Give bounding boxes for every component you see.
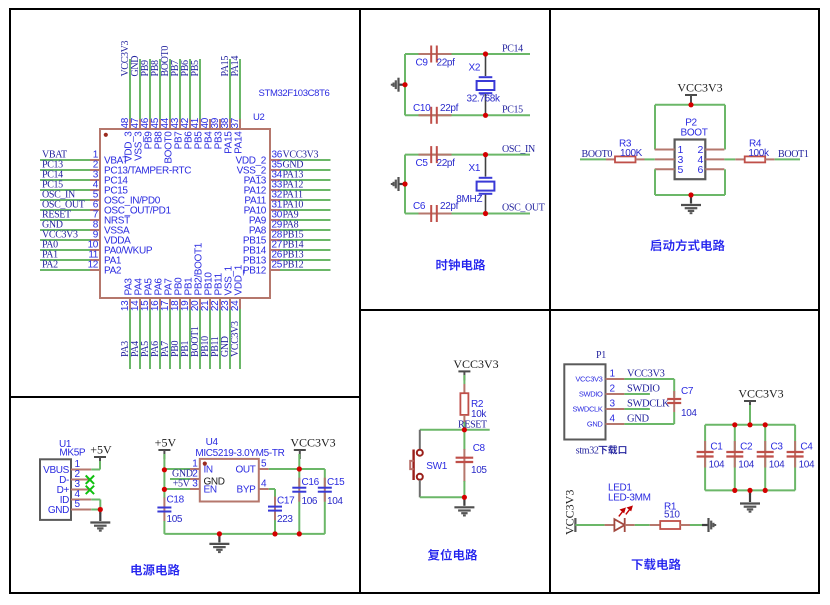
svg-text:VDD_1: VDD_1 — [234, 264, 245, 295]
svg-text:PA2: PA2 — [104, 266, 122, 277]
svg-text:4: 4 — [261, 479, 267, 490]
wire net PB11 from U2 pin 22 — [219, 309, 221, 369]
wire net VCC3V3 from U2 pin 24 — [239, 309, 241, 369]
svg-text:VCC3V3: VCC3V3 — [575, 375, 602, 384]
svg-text:104: 104 — [769, 459, 785, 470]
U4 pin 3 stub — [190, 488, 200, 490]
junction node OSC_IN — [483, 152, 488, 157]
capacitor C5 — [419, 154, 452, 156]
wire GND stub to U4 pin2 — [170, 478, 190, 480]
wire P1 pin2 SWDIO — [624, 393, 650, 395]
led LED1 cathode lead — [625, 524, 635, 526]
wire P1 pin3 SWDCLK — [624, 408, 650, 410]
svg-text:SWDCLK: SWDCLK — [573, 405, 603, 414]
resistor R3 right lead — [636, 158, 645, 160]
U2 pin 10 stub — [90, 249, 100, 251]
svg-text:PC14: PC14 — [502, 44, 523, 55]
ground — [399, 183, 405, 185]
resistor R2 bottom lead — [463, 415, 465, 422]
ground right arrow — [702, 524, 708, 526]
svg-text:OUT: OUT — [235, 465, 255, 476]
wire to SW1 top — [419, 430, 421, 450]
wire net PB9 from U2 pin 46 — [149, 59, 151, 119]
svg-text:C3: C3 — [771, 441, 784, 452]
U4 pin 2 stub — [190, 478, 200, 480]
U2 pin 26 stub — [270, 259, 280, 261]
svg-text:VCC3V3: VCC3V3 — [290, 436, 335, 450]
svg-text:C2: C2 — [740, 441, 753, 452]
svg-text:C8: C8 — [473, 443, 486, 454]
junction node gnd — [688, 192, 693, 197]
ground — [463, 497, 465, 506]
svg-text:SW1: SW1 — [426, 461, 447, 472]
wire R3 to P2 pin3 segment — [645, 158, 655, 160]
wire C4 branch — [794, 425, 796, 452]
svg-text:22pf: 22pf — [437, 158, 456, 169]
wire OSC_OUT bottom rail — [405, 213, 530, 215]
svg-text:22pf: 22pf — [440, 103, 459, 114]
U4 pin 4 stub — [259, 488, 269, 490]
section label 启动方式电路 — [650, 239, 724, 251]
svg-text:104: 104 — [738, 459, 754, 470]
section label 下载电路 — [632, 558, 681, 570]
wire P2 pin 6 drop — [724, 169, 726, 195]
wire R1 to gnd — [690, 524, 702, 526]
svg-text:5: 5 — [261, 459, 267, 470]
U2 pin 27 stub — [270, 249, 280, 251]
wire net PA6 from U2 pin 16 — [159, 309, 161, 369]
power VCC3V3 cap bank — [744, 400, 756, 402]
wire U1 pin5 to gnd — [91, 509, 100, 511]
svg-text:105: 105 — [167, 514, 183, 525]
wire net PA8 from U2 pin 29 — [280, 229, 331, 231]
wire net PA5 from U2 pin 15 — [149, 309, 151, 369]
svg-text:C18: C18 — [167, 494, 185, 505]
wire net PA15 from U2 pin 38 — [229, 59, 231, 119]
wire OUT net — [269, 468, 325, 470]
svg-text:510: 510 — [664, 509, 680, 520]
U2 pin 1 stub — [90, 159, 100, 161]
wire VCC3V3 to R2 — [463, 375, 465, 384]
wire SW1 bottom — [419, 480, 421, 497]
wire net GND from U2 pin 23 — [229, 309, 231, 369]
svg-text:24: 24 — [230, 300, 241, 311]
P1 pin 1 stub — [606, 378, 625, 380]
svg-text:4: 4 — [610, 414, 616, 425]
wire C1 branch — [704, 425, 706, 452]
U2 pin 44 stub — [169, 119, 171, 129]
resistor R1 — [660, 521, 680, 529]
wire net PC13 to U2 pin 2 — [40, 169, 90, 171]
wire through C16 — [298, 469, 300, 488]
junction node ground tap — [402, 82, 407, 87]
crystal X1 — [477, 178, 495, 194]
wire net VCC3V3 from U2 pin 48 — [129, 59, 131, 119]
wire VCC3V3 top rail — [655, 104, 725, 106]
resistor R2 top lead — [463, 384, 465, 393]
wire net PA13 from U2 pin 34 — [280, 179, 331, 181]
svg-text:OSC_OUT: OSC_OUT — [502, 203, 545, 214]
P2 pin 4 stub — [705, 158, 724, 160]
svg-text:stm32: stm32 — [576, 445, 599, 456]
junction node top C3 — [763, 422, 768, 427]
U2 pin 17 stub — [169, 298, 171, 309]
svg-text:25: 25 — [272, 260, 283, 271]
power VCC3V3 — [685, 94, 697, 96]
crystal X2 bottom lead — [485, 94, 487, 115]
U2 pin 5 stub — [90, 199, 100, 201]
resistor R3 left lead — [606, 158, 615, 160]
svg-text:PB5: PB5 — [190, 60, 201, 77]
ground — [749, 490, 751, 494]
wire net PB1 from U2 pin 19 — [189, 309, 191, 369]
wire C7 to pin4 GND — [673, 412, 675, 424]
U1 pin 4 stub — [71, 499, 91, 501]
svg-text:100K: 100K — [620, 148, 643, 159]
svg-text:106: 106 — [302, 496, 318, 507]
power bar vertical — [574, 518, 576, 532]
svg-text:3: 3 — [192, 479, 198, 490]
svg-text:2: 2 — [610, 384, 616, 395]
svg-text:PA14: PA14 — [230, 56, 241, 77]
svg-text:PC15: PC15 — [502, 104, 523, 115]
U2 pin 34 stub — [270, 179, 280, 181]
U2 pin 33 stub — [270, 189, 280, 191]
P2 pin 5 stub — [655, 168, 675, 170]
junction node VCC3V3 — [688, 102, 693, 107]
svg-text:VCC3V3: VCC3V3 — [627, 369, 665, 380]
wire P1 pin1 VCC3V3 — [624, 378, 674, 380]
led emission arrows — [619, 507, 632, 517]
U2 pin 21 stub — [209, 298, 211, 309]
U2 pin 4 stub — [90, 189, 100, 191]
U2 pin 11 stub — [90, 259, 100, 261]
led LED1 LED-3MM — [614, 518, 624, 532]
wire net PB8 from U2 pin 45 — [159, 59, 161, 119]
wire net PA9 from U2 pin 30 — [280, 219, 331, 221]
wire net PA0 to U2 pin 10 — [40, 249, 90, 251]
resistor R4 right lead — [765, 158, 775, 160]
svg-text:GND: GND — [587, 420, 604, 429]
svg-text:SWDCLK: SWDCLK — [627, 399, 670, 410]
wire C17 to bottom rail — [274, 520, 276, 534]
wire +5V to U4 EN — [164, 488, 190, 490]
power VCC3V3 at U4 out — [294, 449, 306, 451]
U2 pin 14 stub — [139, 298, 141, 309]
frame divider horizontal mid+right columns — [360, 309, 819, 311]
wire net PA10 from U2 pin 31 — [280, 209, 331, 211]
ground — [218, 534, 220, 543]
wire bottom gnd rail — [655, 194, 725, 196]
wire C7 branch down — [673, 379, 675, 397]
svg-text:104: 104 — [799, 459, 815, 470]
wire net PC15 to U2 pin 4 — [40, 189, 90, 191]
svg-text:5: 5 — [678, 164, 684, 176]
wire left vertical — [404, 155, 406, 214]
svg-text:PB12: PB12 — [283, 260, 304, 271]
U2 pin 48 stub — [129, 119, 131, 129]
U2 pin 37 stub — [239, 119, 241, 129]
wire net BOOT1 from U2 pin 20 — [199, 309, 201, 369]
svg-text:6: 6 — [698, 164, 704, 176]
wire right drop to P2 pin 2 — [724, 105, 726, 150]
U2 pin 47 stub — [139, 119, 141, 129]
junction node OUT/VCC3V3 — [297, 466, 302, 471]
wire net OSC_IN to U2 pin 5 — [40, 199, 90, 201]
mcu U2 pin-1 marker dot — [104, 133, 108, 137]
wire PC15 bottom rail — [405, 114, 530, 116]
svg-text:C1: C1 — [710, 441, 723, 452]
svg-text:C6: C6 — [413, 201, 426, 212]
U2 pin 23 stub — [229, 298, 231, 309]
crystal X1 bottom lead — [485, 195, 487, 214]
svg-text:VCC3V3: VCC3V3 — [677, 81, 722, 95]
svg-text:3: 3 — [610, 399, 616, 410]
U2 pin 6 stub — [90, 209, 100, 211]
header P2 BOOT body — [675, 140, 706, 180]
U1 pin 2 stub — [71, 479, 91, 481]
svg-text:X2: X2 — [469, 63, 481, 74]
wire P2 pin 5 drop — [654, 169, 656, 195]
U2 pin 18 stub — [179, 298, 181, 309]
svg-text:C9: C9 — [416, 58, 429, 69]
U2 pin 8 stub — [90, 229, 100, 231]
svg-text:LED-3MM: LED-3MM — [608, 493, 651, 504]
svg-text:C4: C4 — [800, 441, 813, 452]
U2 pin 15 stub — [149, 298, 151, 309]
P1 pin 4 stub — [606, 423, 625, 425]
svg-text:BOOT0: BOOT0 — [582, 149, 613, 160]
capacitor C16 — [298, 478, 300, 502]
capacitor C9 — [419, 53, 452, 55]
svg-text:BYP: BYP — [237, 485, 257, 496]
svg-text:1: 1 — [610, 369, 616, 380]
junction node RESET — [462, 427, 467, 432]
U4 pin-1 marker dot — [203, 462, 207, 466]
frame divider horizontal left column — [10, 396, 360, 398]
U2 pin 46 stub — [149, 119, 151, 129]
frame divider vertical mid-right — [549, 9, 551, 593]
U2 pin 20 stub — [199, 298, 201, 309]
wire net PB15 from U2 pin 28 — [280, 239, 331, 241]
wire net PA11 from U2 pin 32 — [280, 199, 331, 201]
resistor R2 — [460, 393, 468, 415]
capacitor C1 — [704, 441, 706, 468]
wire left drop to P2 pin 1 — [654, 105, 656, 150]
frame divider vertical left-mid — [359, 9, 361, 593]
P2 pin 6 stub — [705, 168, 724, 170]
wire net PA1 to U2 pin 11 — [40, 259, 90, 261]
capacitor C2 — [734, 441, 736, 468]
junction node rail-C16 — [297, 531, 302, 536]
junction node top C2 — [732, 422, 737, 427]
wire net PB5 from U2 pin 41 — [199, 59, 201, 119]
wire net PB6 from U2 pin 42 — [189, 59, 191, 119]
P2 pin 3 stub — [655, 158, 675, 160]
wire VCC3V3 stem — [298, 454, 300, 469]
U2 pin 24 stub — [239, 298, 241, 309]
wire RESET to C8 — [463, 430, 465, 450]
U2 pin 16 stub — [159, 298, 161, 309]
capacitor C4 — [794, 441, 796, 468]
wire LED to R1 — [635, 524, 650, 526]
wire net PB7 from U2 pin 43 — [179, 59, 181, 119]
capacitor C3 — [764, 441, 766, 468]
U2 pin 36 stub — [270, 159, 280, 161]
crystal X1 top lead — [485, 155, 487, 177]
section label 复位电路 — [428, 549, 477, 561]
capacitor C8 — [463, 449, 465, 482]
power +5V at U1 — [94, 456, 106, 458]
wire U1 pin4 to gnd — [91, 499, 100, 501]
capacitor C7 — [673, 391, 675, 412]
header P1 body — [564, 364, 605, 439]
wire net PA3 from U2 pin 13 — [129, 309, 131, 369]
U2 pin 12 stub — [90, 269, 100, 271]
svg-text:8MHZ: 8MHZ — [456, 194, 482, 205]
U2 pin 43 stub — [179, 119, 181, 129]
U4 pin 1 stub — [190, 468, 200, 470]
junction node PC15 — [483, 113, 488, 118]
wire C3 branch — [764, 425, 766, 452]
crystal X2 top lead — [485, 54, 487, 76]
wire net PB10 from U2 pin 21 — [209, 309, 211, 369]
wire cap bank top rail — [705, 424, 795, 426]
U2 pin 32 stub — [270, 199, 280, 201]
junction node +5V to IN — [162, 467, 167, 472]
U2 pin 25 stub — [270, 269, 280, 271]
svg-text:5: 5 — [75, 499, 81, 510]
wire cap bank bottom rail — [705, 489, 795, 491]
svg-text:SWDIO: SWDIO — [579, 390, 603, 399]
wire R2 to RESET node — [463, 422, 465, 430]
led LED1 anode lead — [605, 524, 614, 526]
junction node PC14 — [483, 51, 488, 56]
wire power bottom rail — [164, 533, 324, 535]
wire net VCC3V3 from U2 pin 36 — [280, 159, 331, 161]
ground — [99, 510, 101, 514]
svg-text:MIC5219-3.0YM5-TR: MIC5219-3.0YM5-TR — [195, 448, 284, 459]
svg-text:223: 223 — [277, 514, 293, 525]
capacitor C15 — [324, 478, 326, 502]
wire net PC14 to U2 pin 3 — [40, 179, 90, 181]
svg-text:32.768k: 32.768k — [467, 94, 501, 105]
svg-text:104: 104 — [709, 459, 725, 470]
U1 pin 3 stub — [71, 489, 91, 491]
svg-text:PB12: PB12 — [243, 266, 267, 277]
capacitor C10 — [419, 114, 452, 116]
U1 pin 5 stub — [71, 509, 91, 511]
junction node bottom feed — [747, 488, 752, 493]
P2 pin 2 stub — [705, 149, 724, 151]
no-connect X on D- — [86, 476, 94, 484]
svg-text:BOOT: BOOT — [681, 128, 708, 139]
power VCC3V3 — [458, 370, 470, 372]
svg-text:U4: U4 — [206, 437, 219, 448]
wire +5V vertical rail — [163, 454, 165, 498]
resistor R3 — [615, 156, 636, 162]
svg-text:IN: IN — [204, 465, 213, 476]
U2 pin 31 stub — [270, 209, 280, 211]
wire BOOT0 to R3 — [580, 158, 606, 160]
capacitor C18 — [163, 498, 165, 522]
P1 pin 2 stub — [606, 393, 625, 395]
U2 pin 22 stub — [219, 298, 221, 309]
wire P2 pin 4 to R4 — [724, 158, 735, 160]
P1 pin 3 stub — [606, 408, 625, 410]
junction node +5V to EN — [162, 487, 167, 492]
svg-text:SWDIO: SWDIO — [627, 384, 660, 395]
wire U4 BYP to C17 — [269, 488, 275, 490]
wire net PB13 from U2 pin 26 — [280, 259, 331, 261]
regulator U4 body — [200, 459, 259, 502]
wire net RESET to U2 pin 7 — [40, 219, 90, 221]
junction node OSC_OUT — [483, 211, 488, 216]
svg-text:VCC3V3: VCC3V3 — [230, 321, 241, 357]
wire C8 to gnd — [463, 481, 465, 497]
wire +5V to U4 IN — [164, 468, 190, 470]
U2 pin 19 stub — [189, 298, 191, 309]
resistor R4 — [745, 156, 766, 162]
wire RESET horizontal — [420, 429, 490, 431]
U2 pin 7 stub — [90, 219, 100, 221]
svg-text:+5V: +5V — [90, 443, 112, 457]
P2 pin 1 stub — [655, 149, 675, 151]
wire net GND from U2 pin 47 — [139, 59, 141, 119]
capacitor C17 — [274, 497, 276, 521]
resistor R1 left lead — [650, 524, 661, 526]
U1 pin 1 stub — [71, 469, 91, 471]
svg-text:GND: GND — [627, 414, 649, 425]
svg-text:+5V: +5V — [155, 436, 177, 450]
svg-text:C7: C7 — [681, 386, 694, 397]
wire net PA4 from U2 pin 14 — [139, 309, 141, 369]
svg-text:MK5P: MK5P — [59, 448, 86, 459]
svg-text:C17: C17 — [277, 495, 295, 506]
wire OSC_IN top rail — [405, 154, 530, 156]
wire net PB0 from U2 pin 18 — [179, 309, 181, 369]
U2 pin 41 stub — [199, 119, 201, 129]
svg-text:U2: U2 — [253, 112, 265, 123]
wire SW1 to C8 bottom rail — [420, 496, 465, 498]
junction node rail-gnd — [217, 531, 222, 536]
wire left vertical — [404, 54, 406, 115]
junction node bottom C2 — [732, 488, 737, 493]
wire net GND from U2 pin 35 — [280, 169, 331, 171]
svg-text:VCC3V3: VCC3V3 — [453, 357, 498, 371]
svg-text:EN: EN — [204, 485, 217, 496]
U2 pin 42 stub — [189, 119, 191, 129]
wire net OSC_OUT to U2 pin 6 — [40, 209, 90, 211]
wire net PA12 from U2 pin 33 — [280, 189, 331, 191]
U2 pin 45 stub — [159, 119, 161, 129]
svg-text:105: 105 — [471, 465, 487, 476]
U2 pin 40 stub — [209, 119, 211, 129]
junction node top feed — [747, 422, 752, 427]
svg-text:P1: P1 — [596, 350, 606, 361]
U2 pin 9 stub — [90, 239, 100, 241]
U4 pin 5 stub — [259, 468, 269, 470]
U2 pin 39 stub — [219, 119, 221, 129]
svg-text:BOOT1: BOOT1 — [778, 149, 809, 160]
section label 时钟电路 — [436, 259, 485, 271]
mcu U2 body STM32F103C8T6 — [100, 129, 270, 298]
junction node gnd — [462, 495, 467, 500]
svg-text:PA2: PA2 — [42, 260, 58, 271]
wire right branch through C15 — [324, 469, 326, 488]
wire C2 branch — [734, 425, 736, 452]
U2 pin 28 stub — [270, 239, 280, 241]
